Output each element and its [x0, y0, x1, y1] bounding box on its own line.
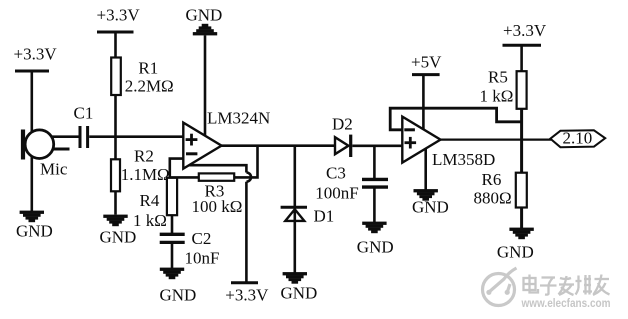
- wire top ground to op-amp: [204, 35, 207, 137]
- op-amp U1 LM324N: [183, 109, 270, 169]
- wire mic to ground: [30, 155, 33, 212]
- wire mic to C1: [53, 135, 80, 138]
- ground (C3): [357, 222, 394, 257]
- power +3.3V (R5 supply): [503, 21, 547, 71]
- svg-text:Mic: Mic: [40, 160, 68, 179]
- svg-text:D1: D1: [314, 207, 335, 226]
- watermark text 电子发烧友: [524, 275, 610, 296]
- resistor R2 1.1MΩ: [111, 147, 170, 192]
- capacitor C2 10nF: [160, 229, 220, 268]
- svg-text:GND: GND: [160, 286, 197, 305]
- wire R5 to output node: [520, 109, 523, 173]
- wire op-amp output: [221, 144, 336, 147]
- wire R3 right to output drop: [234, 146, 257, 178]
- wire R2 to ground: [114, 191, 117, 214]
- wire op-amp V+ to +3.3V: [189, 165, 246, 172]
- svg-text:LM324N: LM324N: [207, 109, 270, 128]
- svg-text:R5: R5: [488, 68, 508, 87]
- svg-text:www.elecfans.com: www.elecfans.com: [521, 296, 611, 310]
- wire output node to C3: [373, 146, 376, 180]
- svg-text:+3.3V: +3.3V: [225, 286, 269, 305]
- wire LM358 output: [441, 139, 552, 141]
- resistor R5 1 kΩ: [480, 68, 527, 109]
- svg-text:GND: GND: [186, 6, 223, 25]
- svg-text:10nF: 10nF: [185, 249, 220, 268]
- svg-text:GND: GND: [412, 198, 449, 217]
- svg-text:100 kΩ: 100 kΩ: [192, 197, 243, 216]
- ground (LM358): [412, 189, 449, 216]
- wire R4 to C2: [171, 215, 174, 233]
- svg-text:GND: GND: [100, 228, 137, 247]
- svg-text:R4: R4: [140, 191, 160, 210]
- ground (mic): [16, 211, 53, 241]
- wire output to D1: [293, 146, 296, 221]
- op-amp U2 LM358D: [402, 117, 495, 169]
- wire D1 to ground: [293, 221, 296, 273]
- svg-text:C1: C1: [74, 104, 94, 123]
- ground (R6): [497, 228, 534, 262]
- wire C3 to ground: [373, 187, 376, 222]
- wire R1 to input node: [114, 95, 117, 159]
- svg-text:GND: GND: [281, 284, 318, 303]
- resistor R6 880Ω: [474, 170, 527, 208]
- microphone Mic: [21, 130, 70, 179]
- svg-text:100nF: 100nF: [315, 184, 358, 203]
- svg-text:2.2MΩ: 2.2MΩ: [125, 77, 174, 96]
- power +3.3V (R1 supply): [97, 6, 141, 58]
- wire inverting input to feedback node: [170, 159, 184, 179]
- wire LM358 V- to ground: [424, 149, 427, 191]
- resistor R3 100 kΩ: [192, 173, 243, 216]
- ground (D1): [281, 272, 318, 302]
- svg-text:2.10: 2.10: [563, 129, 593, 148]
- capacitor C1: [74, 104, 94, 149]
- wire D2 to LM358 non-inverting input: [352, 145, 403, 148]
- svg-text:1.1MΩ: 1.1MΩ: [121, 165, 170, 184]
- wire hop to +3.3V bar: [245, 182, 248, 282]
- resistor R4 1 kΩ: [133, 178, 177, 230]
- svg-text:+5V: +5V: [411, 53, 442, 72]
- power +3.3V (op-amp supply): [225, 283, 269, 305]
- wire R6 to ground: [520, 208, 523, 229]
- ground (R2): [100, 215, 137, 247]
- ground (top, op-amp power): [186, 6, 223, 36]
- watermark url www.elecfans.com: [521, 296, 611, 310]
- diode D1: [281, 207, 335, 226]
- power +5V: [411, 53, 442, 132]
- connector 2.10: [550, 129, 605, 148]
- svg-text:1 kΩ: 1 kΩ: [133, 211, 167, 230]
- watermark logo: [483, 268, 517, 306]
- svg-text:880Ω: 880Ω: [474, 189, 512, 208]
- svg-text:D2: D2: [332, 115, 353, 134]
- capacitor C3 100nF: [315, 164, 388, 203]
- svg-text:C3: C3: [326, 164, 346, 183]
- wire hop (V+ over feedback): [246, 173, 251, 182]
- wire feedback node to R3: [170, 176, 200, 179]
- svg-text:GND: GND: [357, 238, 394, 257]
- wire C2 to ground: [171, 242, 174, 268]
- svg-text:+3.3V: +3.3V: [97, 6, 141, 25]
- wire C1 to op-amp non-inverting input: [89, 135, 184, 138]
- svg-text:GND: GND: [16, 222, 53, 241]
- svg-text:C2: C2: [192, 229, 212, 248]
- svg-text:LM358D: LM358D: [432, 150, 495, 169]
- svg-text:1 kΩ: 1 kΩ: [480, 87, 514, 106]
- ground (C2): [160, 268, 197, 305]
- diode D2: [332, 115, 353, 158]
- svg-text:R1: R1: [138, 59, 158, 78]
- power +3.3V (mic supply): [14, 45, 58, 134]
- svg-text:+3.3V: +3.3V: [14, 45, 58, 64]
- svg-text:R2: R2: [134, 147, 154, 166]
- svg-text:R6: R6: [482, 170, 502, 189]
- resistor R1 2.2MΩ: [111, 58, 174, 96]
- svg-text:GND: GND: [497, 243, 534, 262]
- wire LM358 feedback: [390, 108, 522, 130]
- svg-text:+3.3V: +3.3V: [503, 21, 547, 40]
